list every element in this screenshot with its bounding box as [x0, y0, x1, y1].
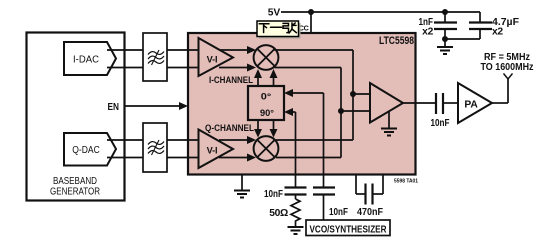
- svg-text:I-CHANNEL: I-CHANNEL: [209, 74, 253, 85]
- mixer I: [254, 45, 279, 70]
- V-I converter (Q channel): [199, 130, 234, 169]
- capacitor 470nF: [356, 175, 383, 219]
- LO wire to 0-deg input: [284, 89, 324, 188]
- svg-text:VCO/SYNTHESIZER: VCO/SYNTHESIZER: [310, 224, 387, 236]
- VCC wire into chip: [310, 12, 312, 33]
- svg-text:V-I: V-I: [207, 55, 218, 65]
- EN wire with arrow: [125, 102, 188, 110]
- svg-text:x2: x2: [492, 27, 503, 38]
- I-DAC block: [64, 42, 116, 75]
- svg-text:x2: x2: [422, 27, 433, 38]
- capacitor 10nF (LO input): [313, 188, 348, 221]
- wires phase box to mixer I (up arrows): [254, 69, 278, 86]
- capacitor 10nF (LO term): [264, 188, 307, 201]
- lowpass filter Q: [143, 123, 167, 172]
- svg-text:EN: EN: [108, 102, 120, 113]
- capacitor 4.7uF x2: [445, 12, 519, 39]
- wires V-I out to mixer I with arrows: [219, 46, 256, 72]
- VCO/SYNTHESIZER box: [306, 220, 390, 236]
- tooltip next-image: [257, 21, 301, 39]
- svg-text:Q-CHANNEL: Q-CHANNEL: [205, 122, 254, 133]
- svg-text:10nF: 10nF: [264, 189, 283, 200]
- ground (bypass): [437, 39, 453, 54]
- svg-text:470nF: 470nF: [357, 207, 383, 218]
- node dot VCC: [308, 9, 314, 15]
- summing wire I- to amp: [275, 68, 371, 158]
- node dot: [338, 108, 344, 114]
- LO wire to 90-deg input: [284, 108, 296, 188]
- svg-text:BASEBAND: BASEBAND: [53, 176, 97, 187]
- svg-text:10nF: 10nF: [431, 118, 450, 129]
- svg-text:TO 1600MHz: TO 1600MHz: [481, 62, 534, 73]
- output amplifier: [370, 83, 403, 123]
- 5V supply wire: [281, 11, 480, 13]
- node dot: [350, 91, 356, 97]
- phase shifter box 0/90: [248, 86, 284, 120]
- ground (chip left pin): [234, 175, 250, 198]
- svg-text:GENERATOR: GENERATOR: [50, 187, 100, 198]
- RF output wire: [403, 102, 436, 104]
- ground (amp): [381, 112, 397, 136]
- wire filter to V-I (Q): [167, 140, 198, 158]
- svg-text:10nF: 10nF: [329, 207, 348, 218]
- PA amplifier: [458, 83, 492, 123]
- svg-text:90°: 90°: [260, 108, 274, 119]
- wires phase box to mixer Q (down arrows): [254, 120, 278, 138]
- lowpass filter I: [143, 33, 167, 81]
- IC LTC5598 body: [188, 33, 416, 175]
- capacitor 1nF x2: [419, 12, 458, 39]
- wire filter to V-I (I): [167, 50, 198, 68]
- svg-text:LTC5598: LTC5598: [379, 35, 414, 47]
- svg-text:5598 TA01: 5598 TA01: [394, 179, 418, 185]
- wire Q-DAC to filter pair: [107, 140, 143, 158]
- baseband generator box: [27, 33, 125, 201]
- resistor 50 ohm: [269, 195, 300, 226]
- ground (50 ohm): [288, 227, 304, 234]
- Q-DAC block: [64, 133, 116, 166]
- node dot bypass gnd: [442, 36, 448, 42]
- svg-text:50Ω: 50Ω: [269, 208, 288, 219]
- V-I converter (I channel): [199, 38, 234, 76]
- svg-text:5V: 5V: [268, 8, 281, 19]
- node dot 1nF: [442, 9, 448, 15]
- capacitor 10nF (RF coupling): [431, 93, 459, 129]
- summing wire I+ to amp: [275, 50, 371, 140]
- antenna: [492, 74, 513, 104]
- svg-text:I-DAC: I-DAC: [73, 55, 99, 66]
- mixer Q: [254, 136, 279, 161]
- wire I-DAC to filter pair: [107, 50, 143, 68]
- wires V-I out to mixer Q with arrows: [219, 136, 256, 162]
- svg-text:V-I: V-I: [207, 146, 218, 156]
- RF range label: [481, 52, 534, 73]
- svg-text:0°: 0°: [261, 92, 272, 103]
- svg-text:Q-DAC: Q-DAC: [72, 145, 100, 156]
- svg-text:PA: PA: [464, 100, 478, 111]
